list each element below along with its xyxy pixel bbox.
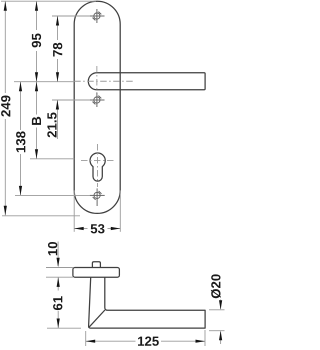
keyhole vertical centerline — [97, 144, 99, 187]
miter edge — [89, 310, 105, 328]
extension line top screw — [52, 15, 90, 17]
dimension 10 — [48, 242, 60, 268]
screw S2 — [90, 93, 105, 107]
dimension diameter 20 — [209, 274, 225, 344]
dimension 53 — [74, 190, 120, 233]
dimension B — [32, 82, 41, 159]
dimension 21.5 — [47, 100, 59, 139]
extension line handle centerline — [14, 81, 74, 83]
screw S3 — [90, 188, 105, 206]
extension line rose top — [46, 267, 73, 269]
spindle hub — [92, 262, 100, 268]
extension line screw S2 — [52, 99, 90, 101]
keyhole profile cylinder — [90, 153, 105, 181]
lever horizontal centerline — [74, 80, 133, 82]
keyhole horizontal centerline — [81, 159, 115, 161]
rose plate — [73, 268, 120, 278]
dimension 95 — [32, 1, 41, 82]
screw S1 — [90, 9, 105, 23]
dimension 61 — [53, 277, 62, 328]
dimension 78 — [53, 16, 62, 82]
extension line plate bottom — [2, 215, 80, 217]
extension line screw S3 — [15, 194, 90, 196]
dimension 125 — [86, 330, 205, 346]
handle neck and grip outline — [89, 277, 206, 328]
dimension 249 — [1, 1, 10, 215]
extension line grip bottom left — [47, 327, 81, 329]
dimension 138 — [16, 82, 25, 196]
lever handle front view — [88, 73, 205, 90]
extension line cylinder centerline — [30, 158, 74, 160]
extension line rose bottom — [46, 276, 73, 278]
lever vertical centerline — [96, 66, 98, 94]
backplate outline — [74, 1, 120, 213]
extension line plate top — [1, 0, 96, 2]
